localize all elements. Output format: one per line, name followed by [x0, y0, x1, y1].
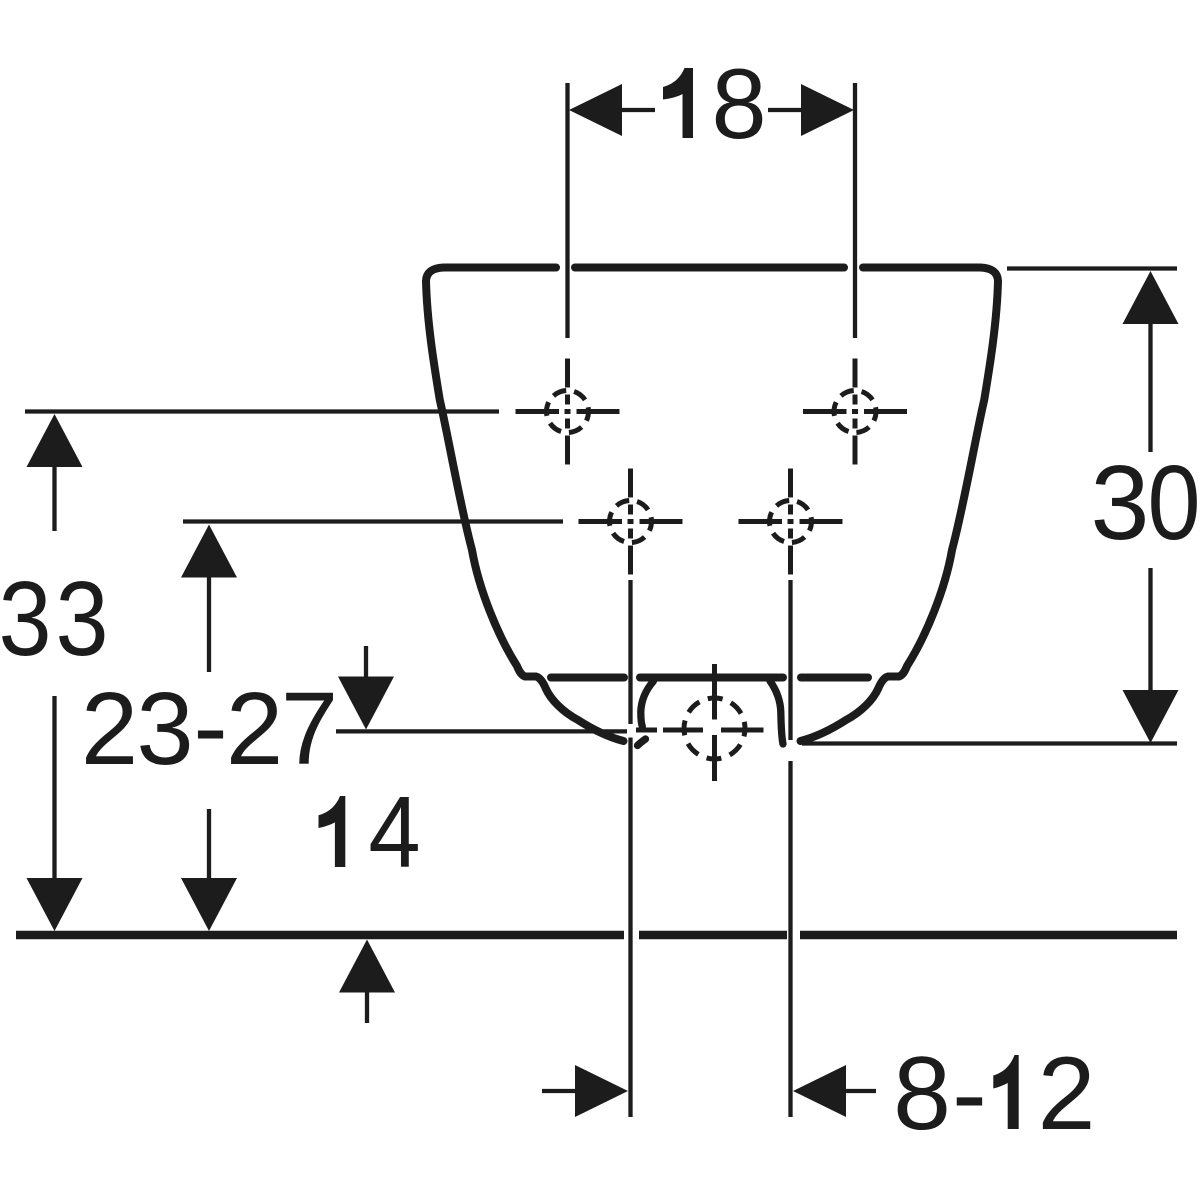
svg-text:4: 4: [368, 776, 420, 889]
svg-text:2: 2: [1038, 1036, 1096, 1152]
svg-text:-: -: [193, 669, 227, 784]
svg-text:2: 2: [226, 671, 283, 786]
svg-text:7: 7: [281, 671, 338, 786]
svg-text:3: 3: [1091, 444, 1150, 562]
svg-text:8: 8: [711, 48, 766, 159]
svg-text:2: 2: [81, 671, 138, 786]
svg-text:-: -: [952, 1036, 987, 1152]
svg-text:8: 8: [893, 1036, 951, 1152]
svg-text:3: 3: [0, 560, 52, 678]
svg-text:0: 0: [1147, 444, 1200, 562]
svg-text:3: 3: [55, 560, 108, 678]
svg-text:3: 3: [136, 671, 193, 786]
